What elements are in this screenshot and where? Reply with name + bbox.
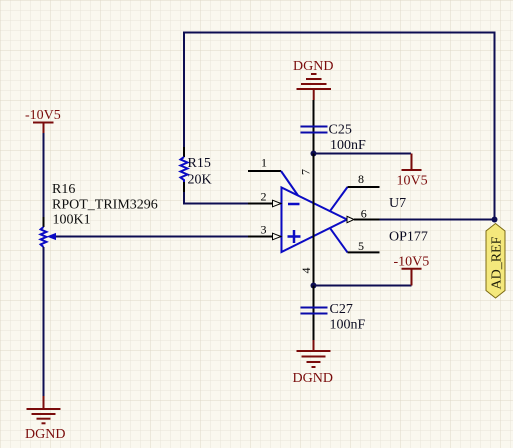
svg-text:R15: R15 bbox=[188, 156, 211, 171]
potentiometer R16 bbox=[41, 227, 47, 247]
power 10V5 bbox=[402, 154, 422, 171]
svg-text:C25: C25 bbox=[329, 123, 352, 138]
power -10V5 (top left) bbox=[33, 123, 54, 134]
svg-text:6: 6 bbox=[361, 207, 367, 221]
wire: top ground to C25 bbox=[313, 100, 315, 154]
svg-text:4: 4 bbox=[299, 268, 313, 274]
svg-text:5: 5 bbox=[358, 239, 364, 253]
resistor R15 bbox=[181, 157, 188, 182]
svg-text:100nF: 100nF bbox=[330, 138, 366, 153]
op-amp minus sign bbox=[288, 203, 300, 206]
svg-text:2: 2 bbox=[261, 190, 267, 204]
pin 6 bbox=[354, 219, 380, 221]
pin 5 bbox=[348, 251, 380, 253]
capacitor C25 bbox=[301, 127, 328, 133]
pin lead R15 top bbox=[183, 147, 185, 157]
svg-text:8: 8 bbox=[358, 172, 364, 186]
wire: wiper to pin 3 bbox=[56, 236, 282, 238]
wire: feedback top loop from R15 top to output node bbox=[184, 33, 495, 220]
wire: output pin 6 to node bbox=[380, 219, 495, 221]
ground DGND top (above C25) bbox=[297, 74, 332, 100]
junction node pin4/C27 bbox=[311, 283, 317, 289]
power -10V5 (right) bbox=[402, 269, 422, 286]
svg-text:7: 7 bbox=[299, 169, 313, 175]
svg-text:-10V5: -10V5 bbox=[394, 255, 430, 270]
junction node pin7/C25/10V5 bbox=[311, 151, 317, 157]
pin 2 arrow bbox=[273, 200, 282, 207]
svg-text:DGND: DGND bbox=[293, 59, 333, 74]
svg-text:20K: 20K bbox=[188, 173, 212, 188]
op-amp plus sign bbox=[288, 230, 301, 243]
svg-text:3: 3 bbox=[261, 223, 267, 237]
pin 1 bbox=[248, 170, 281, 172]
svg-text:1: 1 bbox=[261, 156, 267, 170]
wire: node to 10V5 bbox=[314, 153, 412, 155]
svg-text:10V5: 10V5 bbox=[397, 174, 428, 189]
R16 wiper arrow bbox=[47, 233, 56, 240]
pin 8 slant bbox=[330, 187, 348, 211]
svg-text:RPOT_TRIM3296: RPOT_TRIM3296 bbox=[52, 198, 158, 213]
pin lead R15 bottom bbox=[183, 182, 185, 192]
pin lead R16 top bbox=[43, 217, 45, 227]
svg-text:100nF: 100nF bbox=[330, 318, 366, 333]
ground DGND bottom-middle bbox=[297, 340, 331, 367]
svg-text:AD_REF: AD_REF bbox=[490, 236, 505, 289]
wire: node pin4 to -10V5 bbox=[314, 285, 412, 287]
pin 3 bbox=[248, 236, 274, 238]
wire: R15 bottom to pin 2 bbox=[184, 182, 282, 204]
pin 6 arrow bbox=[347, 216, 354, 222]
pin lead R16 bottom bbox=[43, 247, 45, 257]
pin 7 / pin 4 vertical bbox=[313, 154, 315, 286]
pin 5 slant bbox=[330, 228, 348, 253]
svg-text:C27: C27 bbox=[330, 302, 353, 317]
port AD_REF bbox=[486, 224, 505, 299]
svg-text:100K1: 100K1 bbox=[53, 213, 91, 228]
capacitor C27 bbox=[301, 308, 328, 314]
pin 8 bbox=[348, 186, 380, 188]
junction node output/AD_REF bbox=[492, 217, 498, 223]
wire: -10V5 down to potentiometer bbox=[43, 133, 45, 227]
op-amp U7 triangle bbox=[282, 188, 348, 253]
svg-text:DGND: DGND bbox=[293, 371, 333, 386]
svg-text:DGND: DGND bbox=[25, 427, 65, 442]
svg-text:OP177: OP177 bbox=[389, 230, 428, 245]
svg-text:R16: R16 bbox=[52, 182, 75, 197]
pin 1 slant bbox=[281, 171, 298, 196]
wire: node to C27 bbox=[313, 286, 315, 341]
svg-text:U7: U7 bbox=[389, 196, 406, 211]
wire: pot bottom down to ground bbox=[43, 247, 45, 396]
pin 3 arrow bbox=[273, 233, 282, 240]
ground DGND bottom-left bbox=[27, 396, 61, 423]
svg-text:-10V5: -10V5 bbox=[25, 108, 61, 123]
pin 2 bbox=[248, 203, 274, 205]
